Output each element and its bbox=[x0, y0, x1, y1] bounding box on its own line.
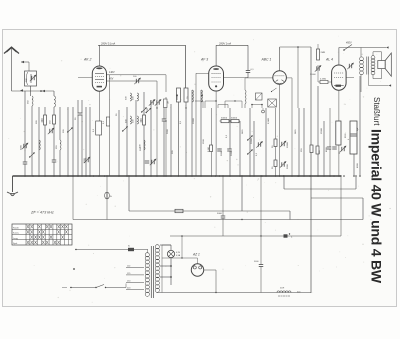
capacitor C19 box bbox=[256, 93, 263, 100]
coil L3 350 bbox=[39, 107, 40, 176]
ground symbol left bbox=[7, 176, 18, 196]
trimmer C2 bbox=[22, 143, 28, 149]
wire loop y189 bbox=[284, 176, 356, 189]
svg-text:Spul.: Spul. bbox=[13, 243, 18, 245]
wire lamp feed bbox=[75, 249, 148, 250]
svg-text:140V: 140V bbox=[109, 71, 115, 74]
resistor R13 bbox=[274, 160, 277, 167]
wire ABC1 top loop bbox=[280, 46, 311, 108]
transformer taps bbox=[126, 266, 144, 290]
svg-text:AZ 1: AZ 1 bbox=[192, 253, 200, 257]
wire link row y101 bbox=[195, 100, 242, 108]
antenna bbox=[4, 47, 19, 91]
capacitor C26 5000 bbox=[217, 176, 225, 236]
resistor R15 horizontal bbox=[318, 65, 328, 84]
svg-text:AL 4: AL 4 bbox=[325, 58, 333, 62]
wire bus risers AK2 left bbox=[68, 100, 90, 176]
tube AK2 electrodes bbox=[95, 67, 104, 87]
resistor R11 50k bbox=[231, 118, 239, 123]
wire riser x266 bbox=[265, 108, 267, 176]
wire riser x254 bbox=[253, 121, 255, 176]
capacitor C21 bbox=[327, 147, 332, 149]
junction dots mid band bbox=[72, 95, 356, 237]
coil L8 bbox=[192, 90, 193, 176]
label Stassfurt bbox=[372, 97, 381, 126]
wire 40V drop bbox=[156, 81, 158, 176]
wire riser x240 bbox=[239, 121, 241, 176]
capacitor C4 bbox=[52, 160, 57, 162]
svg-text:0,5MΩ: 0,5MΩ bbox=[268, 117, 270, 124]
svg-text:50000: 50000 bbox=[221, 118, 228, 120]
wire riser x354 bbox=[353, 121, 355, 176]
wire riser x304 bbox=[303, 108, 305, 176]
output transformer primary bbox=[360, 48, 364, 93]
capacitor C6 bbox=[78, 113, 83, 115]
switch S4 bbox=[122, 108, 151, 132]
trimmer C23 bbox=[340, 146, 346, 152]
wire branch bbox=[24, 91, 26, 176]
svg-text:Kurzw.: Kurzw. bbox=[13, 233, 19, 235]
resistor R4 300 bbox=[140, 115, 146, 125]
svg-text:280V 0,1mA: 280V 0,1mA bbox=[100, 41, 116, 45]
svg-text:1M: 1M bbox=[168, 101, 170, 104]
wire rail y211 bbox=[129, 176, 290, 220]
label AL 4 bbox=[325, 58, 333, 62]
coil L9 bbox=[201, 90, 202, 176]
value labels right bbox=[301, 127, 359, 168]
wire link loop y104 bbox=[218, 105, 228, 109]
label 280V 1mA bbox=[218, 41, 231, 45]
switch S5 bbox=[247, 135, 253, 140]
wire rail y236 bbox=[170, 176, 341, 258]
value labels middle bbox=[116, 96, 205, 154]
coil L4 bbox=[60, 107, 61, 176]
connector pickup bbox=[262, 99, 277, 113]
svg-text:Rundf.: Rundf. bbox=[13, 227, 19, 229]
svg-text:8μF: 8μF bbox=[357, 127, 359, 131]
mains lead bbox=[62, 268, 96, 288]
resistor R7 bbox=[184, 88, 188, 176]
svg-text:300: 300 bbox=[41, 118, 44, 123]
fuse Si bbox=[105, 176, 113, 220]
svg-text:Lang.: Lang. bbox=[13, 238, 18, 240]
resistor R8 horizontal bbox=[175, 209, 183, 212]
wire riser x171 bbox=[170, 104, 172, 176]
resistor R1 300 bbox=[41, 107, 47, 176]
resistor R16 bbox=[310, 145, 313, 153]
tube AZ1 envelope bbox=[191, 264, 203, 276]
wire mains riser bbox=[126, 289, 148, 291]
wire AK2 grid2 140V bbox=[107, 71, 167, 75]
coil L1 350 bbox=[28, 96, 34, 106]
tube ABC1 envelope bbox=[273, 71, 287, 85]
wire AK2 anode top bbox=[98, 45, 186, 88]
svg-text:0,3M: 0,3M bbox=[208, 147, 210, 152]
wire rail y219 bbox=[73, 176, 363, 220]
switch S1a bbox=[29, 152, 35, 157]
wire L2 down bbox=[53, 107, 55, 176]
resistor R17 bbox=[316, 146, 319, 154]
trimmer C11 bbox=[155, 99, 161, 105]
svg-text:280V 1mA: 280V 1mA bbox=[218, 41, 231, 45]
resistor R3 box bbox=[96, 117, 110, 135]
resistor R10 50k bbox=[221, 118, 229, 123]
resistor R14 2M bbox=[317, 44, 326, 60]
wire riser x136 bbox=[135, 100, 137, 176]
svg-text:Staßfurt: Staßfurt bbox=[372, 97, 381, 126]
resistor R9 bbox=[210, 145, 213, 152]
trimmer C7 bbox=[84, 157, 90, 163]
wire AL4 anode top bbox=[339, 46, 389, 65]
switch S6 bbox=[247, 149, 253, 154]
wire rail x311 bbox=[310, 47, 312, 293]
scan speckle texture bbox=[8, 36, 390, 303]
tube AL4 pins bbox=[328, 78, 354, 177]
wire riser x230 bbox=[229, 108, 231, 176]
coil L7 bbox=[140, 140, 146, 150]
tube AF3 envelope bbox=[209, 66, 224, 91]
switch S7 output bbox=[343, 42, 352, 51]
wire AZ1 heater bbox=[204, 270, 217, 293]
switch S2 bbox=[67, 127, 73, 132]
component small bbox=[176, 94, 178, 100]
wire riser x164 bbox=[163, 100, 165, 176]
wire AF3 anode top bbox=[216, 45, 248, 77]
trimmer C8 bbox=[149, 99, 155, 105]
heater tap dots bbox=[160, 258, 172, 285]
plug contact bbox=[20, 89, 45, 92]
value labels left bbox=[21, 117, 106, 163]
bus junction dots bbox=[24, 175, 361, 177]
svg-text:AK 2: AK 2 bbox=[83, 58, 91, 62]
transformer primary bbox=[145, 250, 149, 297]
wire link y104b bbox=[251, 104, 263, 108]
resistor R5 1M bbox=[164, 99, 170, 108]
wire riser x250 bbox=[249, 108, 251, 176]
wire riser x151 bbox=[150, 100, 152, 176]
svg-text:0,1MΩ: 0,1MΩ bbox=[320, 79, 326, 81]
trimmer C16 bbox=[256, 141, 262, 147]
wire speaker return bbox=[369, 75, 392, 87]
capacitor C13 bbox=[217, 149, 222, 151]
tube ABC1 pins bbox=[266, 78, 292, 176]
svg-text:ABC 1: ABC 1 bbox=[261, 58, 272, 62]
svg-text:5000: 5000 bbox=[217, 213, 223, 215]
capacitor C14 bbox=[227, 149, 232, 151]
wire 140V drop bbox=[165, 75, 167, 176]
tube AK2 pin wires bbox=[78, 75, 110, 176]
wire antenna to input bbox=[12, 90, 55, 92]
ground bus bbox=[13, 175, 342, 177]
trimmer C5 bbox=[48, 128, 54, 134]
svg-text:ZF = 473 kHz: ZF = 473 kHz bbox=[30, 211, 54, 215]
svg-text:AF 3: AF 3 bbox=[200, 58, 208, 62]
coil L6 bbox=[126, 116, 139, 124]
svg-text:1MΩ: 1MΩ bbox=[242, 129, 244, 134]
capacitor C12 bbox=[162, 119, 167, 121]
wave-band table bbox=[12, 224, 72, 245]
wire riser x324 bbox=[323, 121, 325, 176]
wire riser x119 bbox=[118, 110, 120, 176]
resistor R6 bbox=[177, 88, 181, 176]
capacitor C25 8uF bbox=[345, 133, 357, 138]
fuse Si2 bbox=[128, 246, 134, 252]
tube AZ1 anodes bbox=[193, 264, 201, 269]
svg-text:6,3V: 6,3V bbox=[176, 252, 181, 254]
svg-text:2MΩ: 2MΩ bbox=[321, 52, 326, 54]
switch S3 bbox=[141, 107, 147, 112]
choke Dr bbox=[277, 288, 301, 297]
coil L5 bbox=[126, 93, 139, 101]
transformer core bbox=[151, 246, 153, 298]
wire AZ1 plate left bbox=[162, 245, 198, 293]
svg-text:400V: 400V bbox=[346, 42, 352, 45]
trimmer C10 bbox=[150, 159, 156, 165]
output transformer secondary bbox=[371, 52, 381, 79]
resistor R2 bbox=[53, 115, 56, 124]
wire AK2 grid3 40V bbox=[107, 76, 158, 84]
svg-text:5mH: 5mH bbox=[280, 288, 285, 290]
tube AL4 envelope bbox=[332, 65, 347, 90]
tube AF3 electrodes bbox=[212, 68, 221, 87]
label AK 2 bbox=[83, 58, 91, 62]
trimmer C18 bbox=[280, 161, 286, 167]
label ZF 473 kHz bbox=[30, 211, 54, 215]
pilot lamp bbox=[160, 245, 181, 258]
wire L1 down bbox=[31, 106, 33, 176]
wire riser x318 bbox=[317, 86, 319, 176]
svg-text:0,3A: 0,3A bbox=[176, 254, 181, 257]
capacitor C9 bbox=[145, 161, 150, 163]
tube ABC1 electrodes bbox=[275, 76, 285, 84]
tube AL4 electrodes bbox=[334, 73, 344, 87]
svg-text:10000: 10000 bbox=[193, 117, 195, 124]
coil L10 bbox=[245, 78, 266, 108]
svg-text:50000: 50000 bbox=[251, 137, 253, 144]
svg-text:50000: 50000 bbox=[231, 118, 238, 120]
output transformer core bbox=[367, 57, 369, 75]
trimmer C17 bbox=[280, 141, 286, 147]
svg-text:10000: 10000 bbox=[287, 141, 289, 148]
trimmer capacitor C1 300 bbox=[21, 61, 37, 86]
label 280V 0.1mA bbox=[100, 41, 116, 45]
wire bottom rail bbox=[157, 292, 312, 294]
wire riser x276 bbox=[275, 108, 277, 176]
tube AF3 pins bbox=[196, 73, 248, 176]
capacitor C24 tall bbox=[350, 121, 359, 154]
wire g-line bbox=[220, 120, 241, 122]
connector X1 bbox=[284, 233, 294, 238]
svg-text:25000: 25000 bbox=[321, 127, 323, 134]
tube AK2 envelope bbox=[92, 66, 106, 91]
capacitor C3 bbox=[23, 162, 28, 164]
wire drop x261 bbox=[260, 176, 262, 293]
capacitor C15 0.1 bbox=[246, 69, 255, 73]
label AF 3 bbox=[200, 58, 208, 62]
capacitor C22 bbox=[332, 147, 337, 149]
wire riser x144 bbox=[143, 92, 145, 176]
speaker bbox=[378, 53, 392, 76]
svg-text:1MΩ: 1MΩ bbox=[295, 129, 297, 134]
transformer secondary bbox=[155, 245, 159, 293]
mains switch bbox=[95, 284, 126, 289]
label ABC 1 bbox=[261, 58, 272, 62]
wire cap to coil bbox=[30, 86, 32, 96]
wire loop y198 bbox=[311, 198, 363, 220]
wire riser x127 bbox=[126, 107, 128, 176]
svg-text:300: 300 bbox=[140, 118, 143, 123]
resistor R18 tall bbox=[336, 121, 341, 145]
wire y91 to L2 bbox=[53, 91, 55, 96]
capacitor C27 bbox=[254, 261, 263, 267]
wire riser x360 bbox=[359, 76, 361, 176]
label AZ 1 bbox=[192, 253, 200, 257]
coil L2 bbox=[54, 96, 55, 107]
value labels right middle bbox=[208, 117, 297, 169]
label Imperial 40 W und 4 BW bbox=[369, 129, 385, 284]
wire riser x299 bbox=[298, 108, 300, 176]
resistor R12 bbox=[274, 139, 277, 147]
trimmer C20 bbox=[310, 63, 354, 76]
svg-text:Imperial 40 W und 4 BW: Imperial 40 W und 4 BW bbox=[369, 129, 385, 284]
